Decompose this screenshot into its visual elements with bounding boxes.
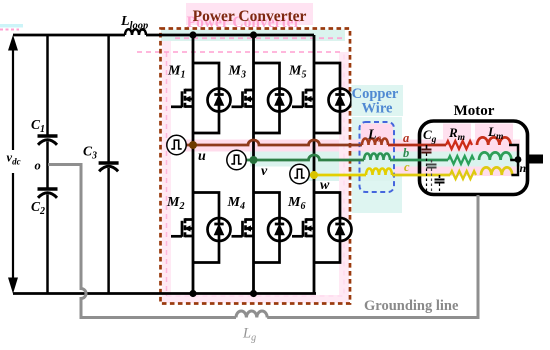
pink patch behind L_c label <box>361 124 393 141</box>
parasitic capacitor C_g phase c <box>435 175 445 191</box>
transistor M5 (MOSFET with antiparallel diode) <box>292 63 352 133</box>
junction dot: leg u on bottom bus <box>189 290 196 297</box>
phase a wire to motor <box>388 144 446 147</box>
parasitic capacitor C_g phase b <box>427 160 437 191</box>
leg u (M1/M2) <box>192 35 195 294</box>
cyan wash behind copper wire box <box>352 117 402 213</box>
pulse source phase v <box>227 150 246 169</box>
svg-text:v: v <box>261 164 268 179</box>
pink patch behind L_m label <box>475 124 513 141</box>
capacitor C1 <box>38 134 58 137</box>
svg-text:n: n <box>520 161 527 175</box>
leg w (M5/M6) <box>313 35 316 294</box>
transistor M2 (MOSFET with antiparallel diode) <box>171 193 231 263</box>
inductor L_m phase c <box>481 167 512 175</box>
junction dot: leg v on bottom bus <box>250 290 257 297</box>
pink dashed highlight line under top bus <box>137 51 344 53</box>
pulse source phase w <box>290 164 309 183</box>
capacitor C3 <box>99 161 119 164</box>
pink dashed highlight frame inside converter box <box>166 52 168 296</box>
pink inner strip right of converter box <box>339 52 349 302</box>
phase b wire to motor <box>390 159 448 162</box>
leg v (M3/M4) <box>252 35 255 294</box>
grounding wire from node o <box>48 165 236 318</box>
svg-text:c: c <box>404 160 410 174</box>
motor housing <box>420 121 528 195</box>
pink inner strip left of converter box <box>162 41 171 302</box>
inductor L_m phase a <box>477 137 511 145</box>
inductor L_c phase b <box>364 154 390 161</box>
inductor L_loop <box>125 29 146 35</box>
svg-text:Wire: Wire <box>362 101 393 117</box>
copper wire dashed box <box>360 122 395 192</box>
highlight band along phase w wire (converter side) <box>290 167 394 182</box>
junction dot: leg u on top bus <box>189 31 196 38</box>
svg-text:a: a <box>403 131 409 145</box>
phase u wire <box>186 140 362 145</box>
phase v wire <box>246 155 365 160</box>
resistor R_m phase a <box>446 141 472 149</box>
motor shaft <box>528 155 544 164</box>
phase c wire to motor <box>392 174 450 177</box>
resistor R_m phase c <box>450 171 476 179</box>
junction dot: leg v on top bus <box>250 31 257 38</box>
svg-text:u: u <box>198 149 206 164</box>
star point connections to node n <box>509 145 518 175</box>
corner artifact pink dashes <box>0 29 19 31</box>
pink patch behind R_m label <box>443 124 471 141</box>
transistor M4 (MOSFET with antiparallel diode) <box>232 193 292 263</box>
svg-text:o: o <box>35 159 41 173</box>
pink halo behind title <box>186 3 313 25</box>
grounding wire to motor <box>267 195 478 318</box>
transistor M1 (MOSFET with antiparallel diode) <box>171 63 231 133</box>
bottom DC bus <box>13 292 316 295</box>
capacitor C2 <box>38 187 58 190</box>
highlight band along phase w wire (motor side) <box>394 167 516 177</box>
corner artifact cyan smudge <box>0 24 23 28</box>
parasitic capacitor C_g phase a <box>422 145 432 191</box>
top DC bus <box>13 34 314 37</box>
transistor M3 (MOSFET with antiparallel diode) <box>232 63 292 133</box>
svg-text:Motor: Motor <box>454 103 495 119</box>
node n <box>515 156 522 163</box>
svg-text:b: b <box>403 146 409 160</box>
phase node v <box>250 156 258 164</box>
inductor L_c phase c <box>366 169 392 175</box>
highlight band along phase u wire <box>161 140 520 152</box>
capacitor branch C3 <box>107 35 110 294</box>
transistor M6 (MOSFET with antiparallel diode) <box>292 193 352 263</box>
power converter dashed box <box>161 29 351 304</box>
svg-text:Power Converter: Power Converter <box>193 8 307 25</box>
svg-text:w: w <box>320 178 330 193</box>
inductor L_g <box>236 311 267 317</box>
pulse source phase u <box>167 135 186 154</box>
inductor L_m phase b <box>479 152 511 160</box>
resistor R_m phase b <box>448 156 474 164</box>
phase node u <box>189 141 197 149</box>
source arrow v_dc <box>9 37 18 293</box>
inductor L_c phase a <box>362 139 388 146</box>
phase node w <box>310 171 318 179</box>
highlight band along phase v wire <box>250 152 520 167</box>
svg-text:Grounding line: Grounding line <box>364 298 459 314</box>
phase w wire <box>309 174 367 177</box>
highlight band along top bus <box>161 30 345 42</box>
cyan halo behind Copper Wire label <box>352 85 404 116</box>
pink dashed ghost of top bus <box>175 37 344 39</box>
capacitor branch C1/C2 <box>46 35 49 294</box>
pink inner strip above converter box bottom <box>162 295 349 303</box>
